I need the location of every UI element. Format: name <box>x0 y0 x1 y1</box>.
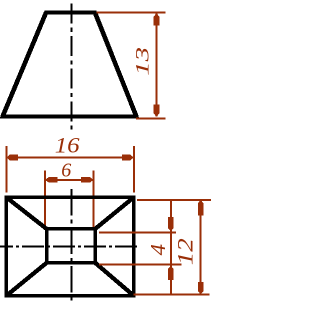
dimension 12 extension line bottom <box>134 294 210 296</box>
top view diagonal edge top-right <box>95 197 134 229</box>
dimension 12 line <box>200 200 202 295</box>
dimension 4 extension line top <box>99 232 176 234</box>
dimension 6 extension line left <box>44 171 46 229</box>
svg-text:13: 13 <box>133 47 153 76</box>
svg-text:16: 16 <box>55 134 80 158</box>
dimension 16 arrow right <box>122 155 134 161</box>
dimension 4 line <box>170 200 172 295</box>
dimension 13 line <box>156 13 158 116</box>
front view centerline <box>71 4 73 133</box>
dimension 13 extension line top <box>96 12 165 14</box>
svg-text:12: 12 <box>174 238 198 265</box>
dimension 6 arrow right <box>81 177 93 183</box>
dimension 4 extension line bottom <box>99 264 182 266</box>
svg-text:4: 4 <box>147 244 170 255</box>
dimension 13 label <box>133 47 153 76</box>
dimension 12 arrow top <box>198 200 204 216</box>
top view diagonal edge bottom-right <box>95 263 134 296</box>
dimension 12 label <box>174 238 198 265</box>
top view inner rectangle <box>47 229 96 263</box>
top view diagonal edge top-left <box>6 197 46 229</box>
dimension 6 label <box>61 160 71 182</box>
svg-text:6: 6 <box>61 160 71 182</box>
top view diagonal edge bottom-left <box>6 263 46 296</box>
dimension 16 arrow left <box>6 155 18 161</box>
dimension 16 extension line right <box>133 146 135 192</box>
front view trapezoid outline <box>3 13 137 117</box>
top view vertical centerline <box>71 189 73 302</box>
dimension 12 extension line top <box>137 199 211 201</box>
dimension 13 extension line bottom <box>136 118 165 120</box>
dimension 16 line <box>6 157 134 159</box>
dimension 4 arrow top <box>168 217 174 232</box>
dimension 6 line <box>45 179 93 181</box>
dimension 16 label <box>55 134 80 158</box>
dimension 16 extension line left <box>5 146 7 192</box>
top view horizontal centerline <box>0 246 140 248</box>
dimension 13 arrow bottom <box>154 105 160 117</box>
dimension 6 arrow left <box>45 177 57 183</box>
dimension 13 arrow top <box>154 13 160 25</box>
dimension 6 extension line right <box>92 171 94 229</box>
dimension 4 label <box>147 244 170 255</box>
top view outer rectangle <box>6 197 134 295</box>
dimension 12 arrow bottom <box>198 282 204 294</box>
dimension 4 arrow bottom <box>168 266 174 281</box>
